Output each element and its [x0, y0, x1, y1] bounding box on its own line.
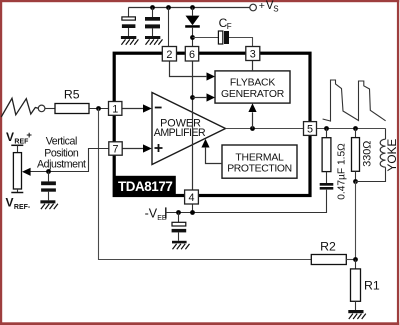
wire pin 7 to amplifier non-inverting input	[122, 148, 143, 150]
svg-text:6: 6	[189, 49, 195, 61]
thermal protection box	[222, 145, 297, 178]
svg-text:REF-: REF-	[14, 204, 31, 211]
svg-text:5: 5	[307, 124, 313, 136]
svg-text:TDA8177: TDA8177	[118, 179, 173, 194]
svg-text:R2: R2	[320, 239, 336, 253]
svg-text:Vertical: Vertical	[46, 135, 77, 147]
capacitor 0.47uF	[320, 183, 334, 186]
node junction yoke bottom	[353, 179, 358, 184]
wire pin 5 output to yoke	[317, 128, 386, 130]
svg-text:R5: R5	[64, 88, 80, 102]
label plus input	[155, 144, 163, 152]
wire yoke junction down to R1/R2	[355, 182, 357, 260]
resistor 1.5 ohm	[326, 129, 328, 138]
wire thermal protection to amplifier	[206, 148, 223, 164]
capacitor C1 supply electrolytic	[122, 17, 135, 20]
terminal -Vee bar	[165, 207, 167, 218]
svg-text:V: V	[6, 195, 14, 209]
svg-text:-V: -V	[145, 206, 158, 220]
node junction on +Vs rail at C2	[150, 5, 155, 10]
wire R2 to node	[346, 259, 355, 261]
svg-text:3: 3	[250, 49, 256, 61]
pin 3	[246, 47, 260, 61]
pin 4	[185, 190, 199, 204]
wire to capacitor CF	[193, 37, 219, 39]
ground	[348, 310, 363, 313]
wire R5 to pin 1	[89, 108, 108, 110]
terminal VREF- bar	[17, 189, 19, 193]
svg-text:S: S	[273, 5, 278, 14]
wire pin 6 branch to flyback generator	[193, 97, 207, 99]
output waveform	[323, 80, 386, 121]
svg-text:R1: R1	[364, 278, 380, 292]
svg-text:+: +	[259, 0, 265, 12]
wire C1 lead	[128, 8, 130, 17]
svg-text:1: 1	[112, 103, 118, 115]
svg-text:2: 2	[166, 49, 172, 61]
wire input to R5	[45, 108, 55, 110]
ground	[121, 36, 136, 39]
node junction wiper / filter cap	[46, 169, 51, 174]
node junction -Vee pin 4	[190, 210, 195, 215]
svg-text:7: 7	[112, 144, 118, 156]
ground	[145, 36, 160, 39]
wire +Vs top rail	[128, 7, 249, 9]
svg-text:GENERATOR: GENERATOR	[221, 89, 285, 100]
ground	[40, 200, 55, 203]
wire output to flyback generator bottom	[252, 112, 254, 128]
capacitor C3 wiper filter	[48, 172, 50, 182]
wire pin 7 to potentiometer wiper	[31, 149, 109, 172]
svg-text:EE: EE	[157, 215, 167, 222]
inductor yoke	[385, 129, 387, 140]
svg-text:+: +	[26, 130, 32, 141]
IC block TDA8177 outline	[114, 53, 310, 195]
wire CF to pin 3	[229, 38, 253, 47]
sawtooth input waveform	[1, 98, 38, 117]
wire feedback left rail down to R2	[99, 109, 312, 260]
input terminal circle	[38, 105, 45, 112]
node junction damping branch	[324, 126, 329, 131]
svg-text:AMPLIFIER: AMPLIFIER	[154, 127, 206, 139]
svg-text:Adjustment: Adjustment	[37, 158, 86, 170]
resistor R5	[55, 104, 89, 114]
svg-text:4: 4	[188, 192, 194, 204]
node junction output / flyback	[250, 126, 255, 131]
pin 5	[304, 122, 317, 136]
node junction -Vee cap	[176, 210, 181, 215]
wire C2 lead	[152, 8, 154, 18]
node junction R1 R2	[353, 257, 358, 262]
resistor R1	[355, 260, 357, 269]
flyback generator box	[215, 71, 290, 103]
label TDA8177	[114, 176, 176, 196]
svg-text:PROTECTION: PROTECTION	[227, 164, 292, 175]
svg-text:V: V	[6, 130, 14, 144]
pin 6	[185, 47, 198, 62]
pin 7	[109, 142, 122, 155]
pin 1	[109, 102, 122, 116]
node junction on +Vs rail at diode	[190, 5, 195, 10]
capacitor C4 -Vee electrolytic	[178, 213, 180, 223]
node junction at R5 / feedback	[96, 106, 101, 111]
label minus input	[155, 107, 162, 109]
wire amplifier output to pin 5	[226, 128, 304, 130]
resistor 330 ohm	[355, 129, 357, 138]
node junction pin 6 branch	[190, 95, 195, 100]
potentiometer vertical position	[13, 153, 21, 189]
wire pin 4 to -Vee rail	[192, 204, 194, 213]
pin 2	[162, 47, 176, 62]
node junction diode cathode / CF	[190, 35, 195, 40]
op-amp U1 power amplifier triangle	[152, 93, 226, 165]
wire pin 3 to flyback generator	[252, 61, 254, 71]
ground	[172, 241, 187, 244]
node junction 330 ohm branch	[353, 126, 358, 131]
resistor R2	[311, 255, 346, 265]
node junction on +Vs rail at pin 2	[166, 5, 171, 10]
terminal VREF+ bar	[11, 144, 23, 146]
svg-text:F: F	[227, 22, 232, 31]
svg-text:YOKE: YOKE	[385, 139, 399, 172]
wire from +Vs rail to pin 2	[168, 8, 170, 47]
capacitor CF	[218, 31, 222, 44]
wire pin 6 internal down to pin 4	[192, 60, 194, 190]
svg-text:0.47µF 1.5Ω: 0.47µF 1.5Ω	[336, 143, 347, 200]
diode D1	[192, 8, 194, 16]
wire pin 1 to amplifier inverting input	[122, 108, 144, 110]
wire pin 2 to flyback generator	[170, 61, 207, 76]
svg-text:330Ω: 330Ω	[362, 141, 374, 167]
svg-text:FLYBACK: FLYBACK	[230, 78, 275, 89]
capacitor C2 supply	[145, 17, 160, 21]
terminal +Vs	[250, 4, 257, 11]
svg-text:THERMAL: THERMAL	[235, 152, 284, 163]
wire -Vee rail	[166, 190, 327, 213]
